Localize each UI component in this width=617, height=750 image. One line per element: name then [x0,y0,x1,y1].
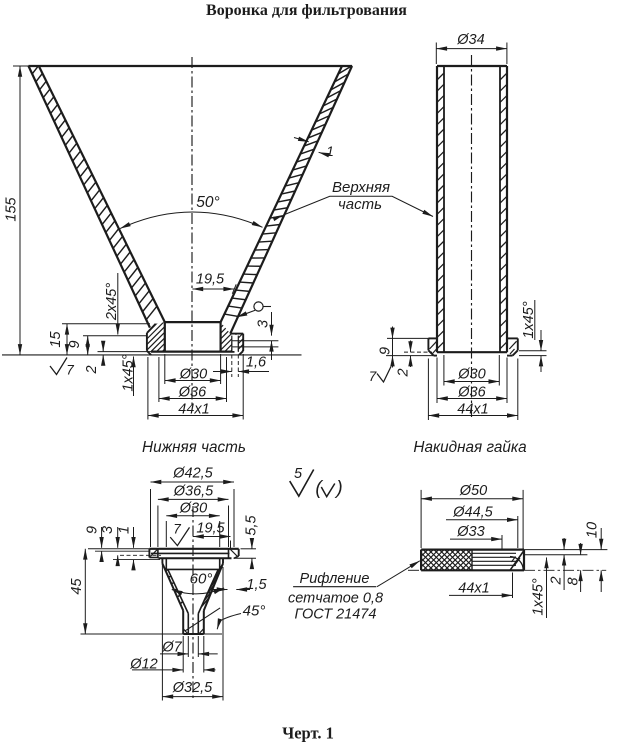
svg-text:3: 3 [100,526,116,534]
svg-text:1,5: 1,5 [246,577,267,593]
svg-text:Ø33: Ø33 [456,524,484,540]
svg-text:1x45°: 1x45° [121,354,137,391]
svg-text:Нижняя часть: Нижняя часть [142,439,246,456]
svg-text:Накидная гайка: Накидная гайка [413,439,526,456]
svg-text:8: 8 [566,577,582,585]
svg-text:7: 7 [369,369,377,384]
svg-text:Черт. 1: Черт. 1 [282,724,334,743]
svg-text:Ø30: Ø30 [179,501,207,517]
svg-text:45: 45 [69,578,85,595]
svg-text:155: 155 [4,196,20,221]
svg-text:Ø36: Ø36 [457,385,486,401]
svg-text:сетчатое 0,8: сетчатое 0,8 [288,591,383,607]
svg-text:1x45°: 1x45° [531,578,547,615]
svg-text:19,5: 19,5 [196,521,225,537]
svg-text:часть: часть [338,196,382,213]
svg-text:10: 10 [585,522,601,538]
svg-text:Рифление: Рифление [300,571,370,587]
svg-text:9: 9 [67,340,83,348]
svg-text:Ø34: Ø34 [456,32,484,48]
svg-text:Ø42,5: Ø42,5 [172,466,213,482]
svg-text:Ø36,5: Ø36,5 [173,484,214,500]
svg-text:19,5: 19,5 [196,272,225,288]
svg-text:15: 15 [48,331,64,348]
svg-text:Ø30: Ø30 [457,367,485,383]
svg-text:Ø32,5: Ø32,5 [172,680,213,696]
svg-text:50°: 50° [196,194,219,211]
svg-text:Ø50: Ø50 [459,483,487,499]
svg-text:5: 5 [294,466,303,482]
svg-text:9: 9 [378,347,394,355]
svg-text:Ø44,5: Ø44,5 [452,505,493,521]
svg-text:44x1: 44x1 [457,402,488,418]
svg-text:1x45°: 1x45° [521,301,537,338]
svg-text:): ) [334,478,342,499]
svg-text:60°: 60° [190,571,213,588]
svg-text:1: 1 [117,526,133,534]
svg-text:9: 9 [84,526,100,534]
svg-text:2x45°: 2x45° [104,283,120,321]
svg-text:Ø30: Ø30 [179,367,207,383]
svg-text:5,5: 5,5 [244,514,260,535]
svg-text:7: 7 [173,522,181,537]
svg-text:2: 2 [84,365,100,374]
svg-text:3: 3 [255,320,271,328]
svg-text:ГОСТ 21474: ГОСТ 21474 [295,607,377,623]
svg-text:Ø36: Ø36 [178,385,207,401]
svg-text:1,6: 1,6 [246,355,267,371]
svg-text:2: 2 [549,576,565,585]
svg-text:2: 2 [396,368,412,377]
svg-text:Ø12: Ø12 [129,657,157,673]
svg-text:Воронка для фильтрования: Воронка для фильтрования [206,2,407,19]
svg-text:44x1: 44x1 [178,402,209,418]
svg-text:1: 1 [326,143,334,159]
svg-text:Верхняя: Верхняя [332,179,390,196]
svg-text:45°: 45° [243,603,266,620]
svg-text:7: 7 [66,363,74,378]
svg-text:Ø7: Ø7 [161,640,182,656]
svg-text:44x1: 44x1 [458,581,489,597]
